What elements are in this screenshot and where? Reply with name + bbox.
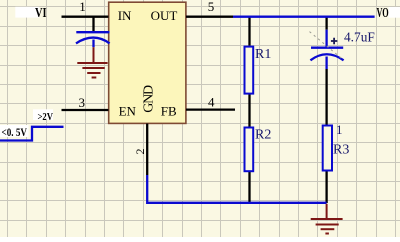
svg-text:2: 2	[133, 149, 147, 155]
svg-text:R1: R1	[255, 47, 271, 62]
svg-text:OUT: OUT	[151, 8, 178, 23]
svg-text:R3: R3	[333, 142, 349, 157]
svg-text:R2: R2	[255, 127, 271, 142]
svg-text:>2V: >2V	[38, 112, 54, 123]
svg-text:GND: GND	[142, 85, 157, 113]
svg-text:5: 5	[208, 0, 215, 14]
svg-text:EN: EN	[119, 104, 137, 119]
svg-text:IN: IN	[118, 8, 132, 23]
svg-text:3: 3	[79, 95, 86, 110]
svg-text:4.7uF: 4.7uF	[344, 30, 375, 45]
svg-text:1: 1	[336, 122, 343, 137]
svg-text:VO: VO	[377, 5, 389, 20]
svg-text:FB: FB	[161, 104, 177, 119]
svg-text:1: 1	[79, 0, 86, 14]
svg-text:<0. 5V: <0. 5V	[2, 127, 28, 139]
svg-text:VI: VI	[35, 5, 47, 20]
svg-text:4: 4	[208, 95, 215, 110]
